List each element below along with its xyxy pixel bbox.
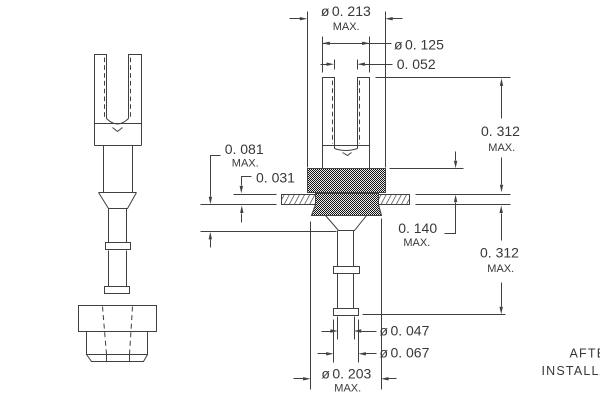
arrowhead D10 left xyxy=(330,329,338,332)
arrowhead D4 top xyxy=(500,78,503,86)
right view: press ring block (knurl) xyxy=(308,169,386,193)
dimension D7 leader (0.031) xyxy=(242,177,252,223)
arrowhead D7 down xyxy=(240,186,243,194)
svg-text:MAX.: MAX. xyxy=(488,142,515,154)
left view: slot shoulder line xyxy=(95,123,142,125)
right view: shank and lower flange (knurl) xyxy=(312,194,382,216)
arrowhead D7 up xyxy=(240,206,243,214)
dimension D6 board bottom ext left xyxy=(201,204,277,206)
right view: cone below flange xyxy=(326,216,367,231)
dimension D9 collar2 bottom ext xyxy=(363,314,506,316)
left view: body bottom line xyxy=(95,145,142,147)
svg-text:MAX.: MAX. xyxy=(487,263,514,275)
svg-text:MAX.: MAX. xyxy=(333,21,360,33)
svg-text:0. 312: 0. 312 xyxy=(480,245,519,261)
right view: fork prongs outline xyxy=(323,78,370,169)
dimension D5 block top ext (0.140) xyxy=(390,168,464,170)
svg-text:ø0. 067: ø0. 067 xyxy=(380,344,430,360)
svg-text:MAX.: MAX. xyxy=(403,237,430,249)
right view: chevron mark xyxy=(343,153,352,156)
svg-text:INSTALLATION: INSTALLATION xyxy=(542,364,600,378)
arrowhead D6 up xyxy=(209,232,212,240)
arrowhead D1 left xyxy=(300,17,308,20)
left view: neck xyxy=(104,146,133,193)
arrowhead D12 left xyxy=(303,377,311,380)
right view: collar 1 xyxy=(334,267,360,274)
svg-text:0. 052: 0. 052 xyxy=(397,56,436,72)
right view: hidden hole dashed lines xyxy=(333,81,360,144)
arrowhead D4 bottom xyxy=(500,185,503,193)
svg-text:ø0. 203: ø0. 203 xyxy=(321,366,371,382)
dimension D4 board bottom ext right xyxy=(416,204,511,206)
svg-text:0. 312: 0. 312 xyxy=(481,123,520,139)
dimension D12 arrows xyxy=(294,378,397,380)
dimension D10 arrows (Ø0.047) xyxy=(322,331,377,333)
svg-text:0. 031: 0. 031 xyxy=(256,169,295,185)
svg-text:0. 140: 0. 140 xyxy=(398,220,437,236)
right view: mid shaft xyxy=(338,274,354,309)
svg-text:0. 081: 0. 081 xyxy=(225,141,264,157)
arrowhead D5 up xyxy=(454,195,457,203)
right view: slot bottom arc xyxy=(335,149,358,151)
arrowhead D9 up xyxy=(500,206,503,214)
dimension D6 leader (0.081) xyxy=(211,156,221,248)
arrowhead D12 right xyxy=(381,377,389,380)
right view: collar 2 xyxy=(334,309,359,316)
left view: base flange xyxy=(79,306,157,332)
arrowhead D10 right xyxy=(354,329,362,332)
svg-text:MAX.: MAX. xyxy=(334,383,361,395)
dimension D3 arrows xyxy=(321,64,393,66)
right view: upper shaft xyxy=(338,231,354,267)
left view: collar 1 xyxy=(106,243,131,250)
svg-text:ø0. 125: ø0. 125 xyxy=(394,37,444,53)
left view: base hex dashed edges xyxy=(103,307,133,355)
right view: board section left xyxy=(282,195,316,205)
left view: flare shoulder xyxy=(99,193,137,209)
dimension D1 arrows xyxy=(290,18,403,20)
dimension D11 arrows xyxy=(318,353,377,355)
dimension D5 arrows and leader xyxy=(445,152,456,234)
left view: base chamfer bottom xyxy=(87,355,148,362)
dimension D4 board top ext right xyxy=(416,194,511,196)
arrowhead D3 right xyxy=(357,63,365,66)
left view: fork prongs outline xyxy=(95,55,142,146)
left view: mid shaft xyxy=(109,251,127,287)
left view: chevron mark xyxy=(113,128,123,132)
svg-text:ø0. 213: ø0. 213 xyxy=(321,3,371,19)
arrowhead D5 down xyxy=(454,161,457,169)
left view: base hex body xyxy=(87,332,148,355)
arrowhead D6 down xyxy=(209,197,212,205)
dimension D6 cone bottom ext xyxy=(201,231,337,233)
left view: upper shaft xyxy=(109,209,127,243)
arrowhead D3 left xyxy=(327,63,335,66)
arrowhead D1 right xyxy=(385,17,393,20)
left view: hidden hole dashed lines xyxy=(105,58,131,120)
dimension D3 ext stubs (0.052) xyxy=(335,60,358,70)
dimension D2 ext lines (Ø0.125) xyxy=(323,37,370,73)
dimension D9 line (0.312 bottom) xyxy=(501,214,503,307)
right view: board section right xyxy=(379,195,410,205)
arrowhead D9 down xyxy=(500,307,503,315)
left view: collar 2 xyxy=(105,287,130,294)
left view: slot bottom arc xyxy=(107,119,129,125)
dimension D4 line (0.312 top) xyxy=(501,86,503,185)
dimension D4 fork top ext line xyxy=(376,77,511,79)
dimension D11 ext lines (Ø0.067) xyxy=(334,320,359,363)
right view: slot shoulder line xyxy=(323,145,370,147)
dimension D7 board top ext left xyxy=(234,194,277,196)
svg-text:AFTER: AFTER xyxy=(570,347,600,361)
right view: lower shaft end xyxy=(338,317,355,340)
arrowhead D11 right xyxy=(358,352,366,355)
arrowhead D11 left xyxy=(326,352,334,355)
svg-text:MAX.: MAX. xyxy=(232,157,259,169)
arrowhead D2 left xyxy=(322,42,330,45)
svg-text:ø0. 047: ø0. 047 xyxy=(380,322,430,338)
dimension D1 ext lines (Ø0.213) xyxy=(308,12,386,168)
arrowhead D2 right xyxy=(362,42,370,45)
dimension D2 line xyxy=(323,43,392,45)
dimension D12 ext lines (Ø0.203) xyxy=(311,219,382,390)
